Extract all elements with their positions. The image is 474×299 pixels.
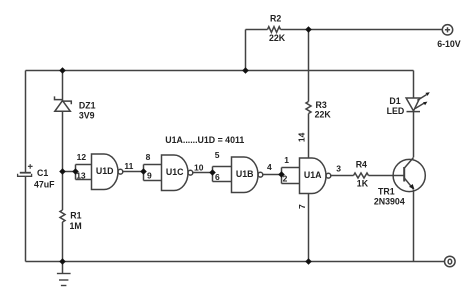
resistor R3: [306, 102, 311, 114]
svg-text:11: 11: [124, 161, 133, 171]
svg-text:1: 1: [284, 155, 289, 165]
capacitor C1: [18, 164, 33, 176]
transistor TR1 collector lead: [404, 158, 413, 169]
node junction R2 branch on V+ rail: [242, 67, 249, 74]
transistor TR1 base bar: [403, 167, 405, 182]
node junction R3 on top rail: [305, 26, 312, 33]
wire R3 to pin14: [308, 114, 310, 159]
terminal output: [445, 256, 456, 267]
wire R1 to bottom rail: [62, 222, 64, 262]
node junction ground on bottom rail: [59, 258, 66, 265]
wire LED to collector: [413, 112, 415, 158]
wire V+ rail corner down to LED: [413, 71, 415, 99]
wire U1C out to U1B node: [193, 172, 213, 174]
nand gate U1D: [92, 154, 119, 190]
wire left vertical lower: [25, 176, 27, 261]
svg-text:R1: R1: [70, 211, 81, 221]
node junction left rail to gates: [59, 168, 66, 175]
output bubble U1B: [258, 172, 263, 177]
nand gate U1A: [300, 158, 327, 194]
svg-text:10: 10: [194, 162, 204, 172]
svg-text:U1D: U1D: [96, 166, 114, 176]
transistor TR1 emitter lead: [404, 178, 414, 190]
nand gate U1C: [162, 155, 189, 191]
terminal 6-10V plus: [442, 25, 452, 35]
svg-text:6-10V: 6-10V: [437, 39, 461, 49]
wire R4 to base: [369, 175, 405, 177]
svg-text:47uF: 47uF: [34, 179, 55, 189]
svg-text:D1: D1: [389, 96, 400, 106]
LED arrow 1: [417, 92, 430, 100]
wire emitter to bottom rail: [413, 190, 415, 262]
svg-text:R2: R2: [270, 14, 281, 24]
wire node to U1A inputs: [282, 168, 300, 184]
ground: [57, 262, 71, 286]
svg-text:7: 7: [297, 204, 307, 209]
wire pin7 to bottom rail: [308, 194, 310, 262]
svg-text:13: 13: [76, 170, 86, 180]
node junction U1D input split: [72, 168, 79, 175]
wire top rail right segment: [281, 29, 443, 31]
LED arrow 2: [415, 102, 427, 109]
wire node to U1D inputs: [63, 165, 92, 180]
svg-text:22K: 22K: [315, 109, 332, 119]
wire left vertical upper: [25, 71, 27, 173]
output bubble U1D: [118, 169, 123, 174]
svg-text:U1A: U1A: [304, 170, 322, 180]
svg-text:4: 4: [267, 162, 272, 172]
svg-text:9: 9: [147, 170, 152, 180]
svg-text:DZ1: DZ1: [79, 100, 96, 110]
node junction U1B input split: [209, 169, 216, 176]
svg-text:1K: 1K: [357, 179, 369, 189]
output bubble U1C: [188, 170, 193, 175]
wire R2 branch vertical: [245, 30, 247, 71]
node junction on V+ rail at zener branch: [59, 67, 66, 74]
output bubble U1A: [326, 173, 331, 178]
wire node to U1B inputs: [213, 167, 232, 182]
wire zener branch upper: [62, 71, 64, 101]
svg-text:14: 14: [297, 132, 307, 142]
resistor R4: [354, 173, 369, 178]
wire node to U1C inputs: [144, 165, 162, 181]
svg-text:R4: R4: [356, 159, 367, 169]
wire V+ rail: [26, 70, 414, 72]
svg-text:TR1: TR1: [378, 186, 395, 196]
nand gate U1B: [232, 157, 259, 193]
svg-text:U1C: U1C: [166, 167, 184, 177]
wire zener to node: [62, 111, 64, 171]
node junction U1A input split: [278, 171, 285, 178]
wire U1A pin3 to R4: [331, 175, 354, 177]
svg-text:12: 12: [77, 152, 87, 162]
svg-text:3V9: 3V9: [79, 111, 95, 121]
svg-text:6: 6: [215, 172, 220, 182]
svg-text:U1A......U1D = 4011: U1A......U1D = 4011: [165, 135, 244, 145]
wire R3 branch from top rail: [308, 30, 310, 102]
wire top rail left segment: [246, 29, 268, 31]
svg-text:2N3904: 2N3904: [374, 197, 405, 207]
node junction pin7 on bottom rail: [305, 258, 312, 265]
svg-text:2: 2: [283, 173, 288, 183]
svg-text:8: 8: [146, 152, 151, 162]
node junction U1C input split: [140, 168, 147, 175]
wire bottom rail: [26, 261, 445, 263]
svg-text:3: 3: [336, 164, 341, 174]
svg-text:LED: LED: [387, 106, 405, 116]
wire node to R1: [62, 172, 64, 211]
resistor R1: [60, 210, 65, 222]
svg-text:U1B: U1B: [236, 169, 254, 179]
wire U1D out to U1C node: [123, 171, 144, 173]
svg-text:C1: C1: [37, 168, 48, 178]
svg-text:22K: 22K: [269, 33, 286, 43]
transistor TR1 body circle: [393, 159, 425, 191]
resistor R2: [268, 27, 281, 33]
zener diode DZ1: [55, 96, 72, 111]
svg-text:5: 5: [215, 150, 220, 160]
svg-text:1M: 1M: [70, 221, 82, 231]
LED D1: [406, 98, 420, 112]
wire U1B out to U1A node: [263, 174, 282, 176]
